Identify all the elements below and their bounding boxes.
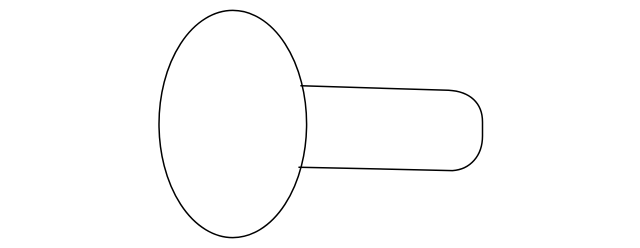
bolt head (ellipse)	[159, 10, 307, 237]
bolt shaft	[299, 86, 483, 171]
